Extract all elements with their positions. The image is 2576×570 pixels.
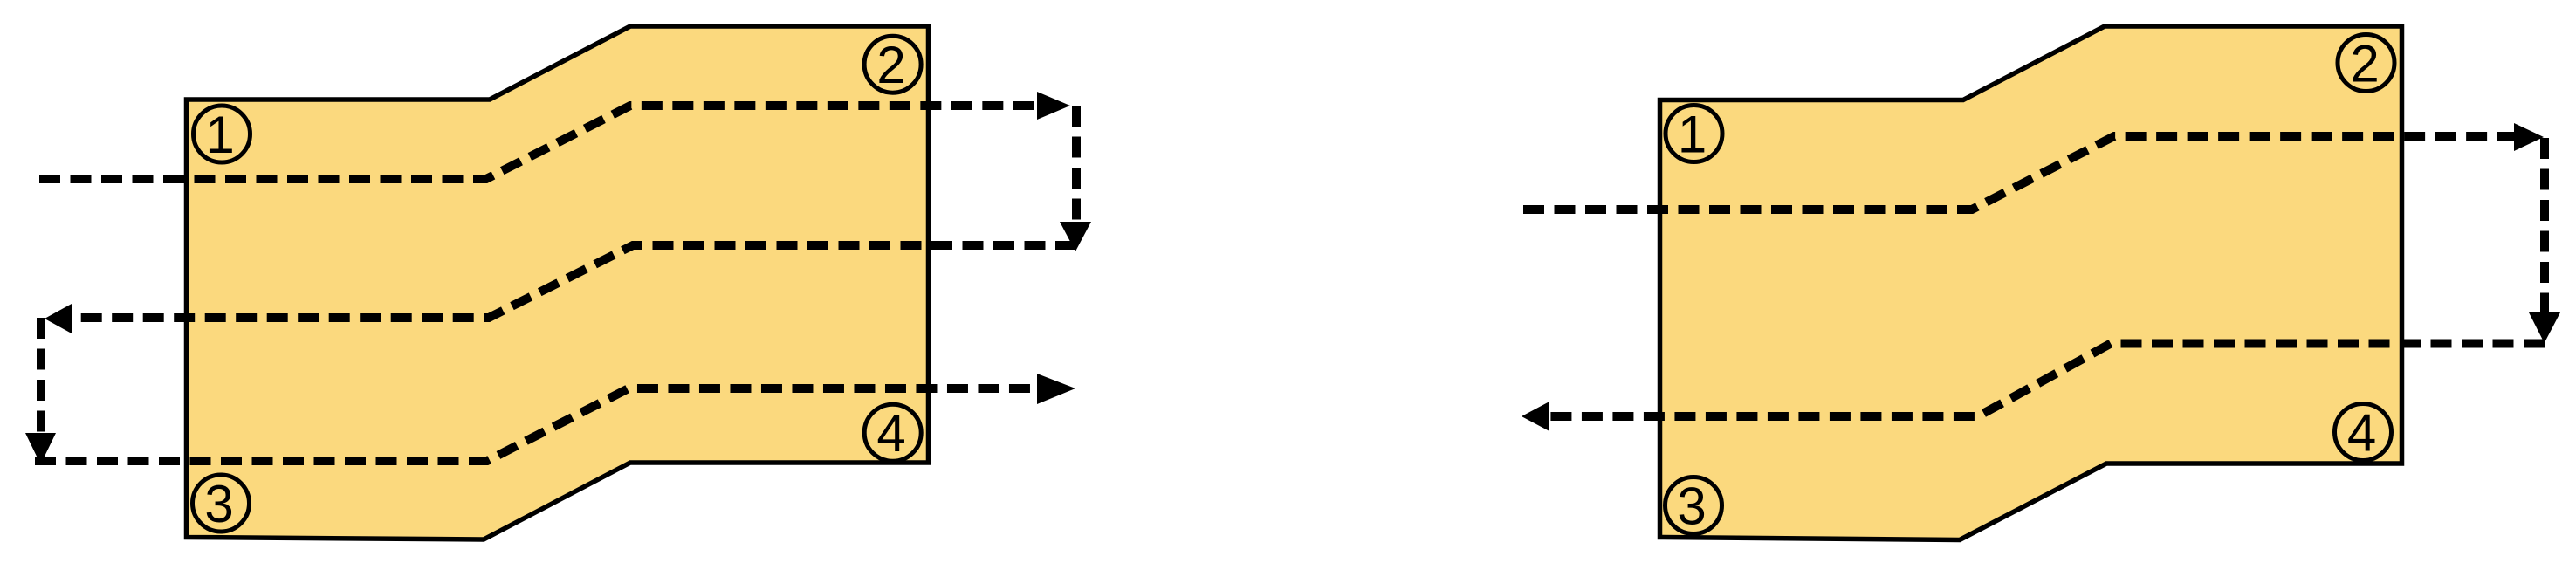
svg-text:2: 2 (2350, 35, 2379, 93)
svg-text:3: 3 (204, 475, 233, 533)
left pass 2 dashed line (re-entry right, exit left) (72, 245, 1076, 318)
left marker circle 4 (864, 404, 921, 461)
left left-side down arrowhead (25, 433, 56, 464)
right pass 1 right arrowhead (2514, 123, 2544, 151)
left marker circle 2 (864, 36, 921, 93)
left pass 2 left arrowhead (45, 304, 72, 333)
right right-side vertical connector dashed (2540, 138, 2549, 312)
left pass 3 dashed line (entry at 3, exit near 4) (35, 388, 1037, 461)
left sheet outline (187, 26, 929, 539)
svg-text:3: 3 (1677, 477, 1706, 536)
left marker circle 1 (194, 106, 251, 162)
right pass 2 dashed line (re-entry right, exit left at 3) (1549, 344, 2545, 417)
right sheet outline (1660, 26, 2402, 540)
svg-text:2: 2 (876, 36, 905, 94)
left pass 3 right arrowhead (1037, 374, 1075, 404)
svg-text:1: 1 (205, 106, 234, 164)
right right-side down arrowhead (2529, 312, 2560, 343)
right marker circle 1 (1666, 106, 1722, 162)
left right-side down arrowhead (1060, 222, 1091, 251)
left marker circle 3 (193, 475, 250, 532)
right marker circle 2 (2338, 35, 2394, 92)
left left-side vertical connector dashed (37, 318, 45, 433)
left right-side vertical connector dashed (1072, 106, 1081, 222)
right pass 2 left arrowhead (1522, 402, 1549, 431)
right marker circle 4 (2335, 404, 2392, 461)
right pass 1 dashed line (entry at 1, exit near 2) (1523, 136, 2514, 209)
right marker circle 3 (1666, 477, 1722, 534)
svg-text:4: 4 (876, 404, 905, 463)
svg-text:4: 4 (2347, 404, 2376, 463)
svg-text:1: 1 (1678, 106, 1707, 164)
left pass 1 right arrowhead (1037, 92, 1070, 120)
left pass 1 dashed line (entry at 1, exit near 2) (39, 106, 1037, 179)
